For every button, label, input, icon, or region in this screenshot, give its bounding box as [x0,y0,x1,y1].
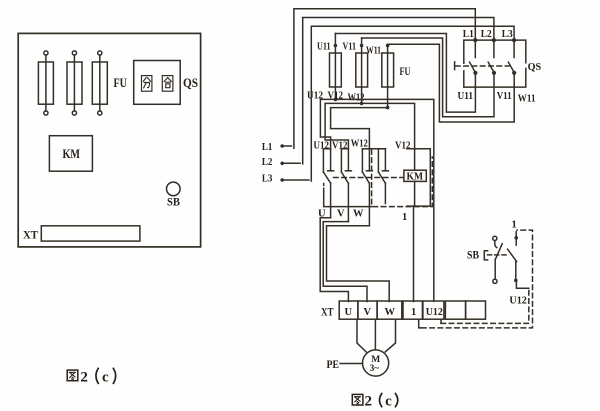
svg-text:c: c [102,369,109,385]
fuse FU pole 2 (left panel) [67,51,82,115]
wire QS pole1 to fuse U11 [335,34,475,113]
svg-text:FU: FU [400,66,411,78]
button SB cap bracket [484,251,487,260]
motor lead V [374,319,376,350]
dashed wire aux contact bottom [373,157,432,207]
terminal strip XT (right) [339,301,485,319]
svg-text:V12: V12 [332,140,348,151]
QS linkage handle tick [454,62,456,70]
node L1 on QS bus [473,38,477,42]
terminal L3 (incoming) [262,172,309,184]
svg-text:L1: L1 [463,29,474,40]
wire contact3 to XT terminal W [327,226,390,302]
svg-text:QS: QS [183,76,198,90]
wire QS pole2 to fuse V11 [362,38,494,117]
terminal L2 (incoming) [262,156,300,168]
KM main contact 3 [362,149,372,226]
svg-text:1: 1 [402,212,407,223]
button SB circle (left panel) [167,182,181,196]
QS pole 1 blade [470,40,478,75]
contactor KM box (left panel) [49,136,92,172]
svg-text:PE: PE [327,359,340,371]
wire QS pole3 to fuse W11 [388,44,515,122]
button SB contact (aux with circles) [493,236,503,283]
wire L2 to QS [303,18,494,164]
svg-text:W12: W12 [351,139,368,150]
fuse FU pole 1 (left panel) [38,51,53,115]
svg-text:W11: W11 [518,94,536,105]
wire node U12 tap along contacts [324,184,372,207]
svg-text:W: W [353,209,364,220]
KM coil bypass loop [407,149,430,206]
button SB contact (main) [508,232,518,282]
motor M circle [363,350,389,376]
wire contact2 to XT terminal V [323,222,367,302]
svg-text:U11: U11 [317,42,331,53]
svg-text:c: c [385,393,392,409]
svg-text:W12: W12 [348,93,365,104]
QS button 分 [142,76,152,92]
QS pole 3 blade [508,40,516,75]
svg-text:1: 1 [512,220,517,231]
KM main contact 2 [341,149,351,222]
svg-text:3~: 3~ [370,363,380,373]
QS pole 2 blade [488,40,496,75]
motor lead W [385,319,395,352]
svg-text:V12: V12 [395,140,411,151]
svg-text:XT: XT [23,230,38,242]
wire fuse U12 to contactor contact 1 [320,99,335,148]
svg-text:2: 2 [80,369,88,385]
wire L3 to QS [311,26,514,181]
svg-text:XT: XT [321,306,334,318]
wire fuse W12 to contactor contact 3 [331,108,388,149]
svg-text:U12: U12 [314,140,330,151]
svg-text:QS: QS [528,61,542,73]
motor lead U [357,319,366,352]
dashed external wire XT-U12 to SB [440,319,442,323]
svg-text:V11: V11 [343,42,357,53]
wire PE [340,363,363,365]
svg-text:L3: L3 [262,172,273,184]
svg-text:U12: U12 [509,296,527,307]
svg-text:V: V [337,209,345,220]
fuse FU pole 3 (left panel) [92,51,107,115]
KM auxiliary contact [378,149,388,204]
fuse FU pole U (right) [330,34,342,102]
svg-text:2: 2 [365,393,373,409]
switch QS box (left panel) [134,61,181,105]
svg-text:1: 1 [411,307,416,318]
svg-text:V: V [364,307,372,318]
KM contacts linkage dashed [334,177,403,179]
svg-text:L2: L2 [481,29,492,40]
svg-text:SB: SB [467,250,479,262]
svg-text:U11: U11 [458,91,474,102]
svg-text:U: U [345,307,353,318]
QS button 合 [162,76,173,92]
terminal L1 (incoming) [262,141,292,153]
wire fuse U12 to XT terminal U12 [335,99,433,301]
svg-text:L3: L3 [502,29,513,40]
caption right 图2（c） [352,393,397,409]
wire aux contact top loop [371,148,386,150]
svg-text:W: W [385,307,396,318]
wire contact1 to XT terminal U [320,218,348,302]
svg-text:L2: L2 [262,156,273,168]
dashed external wire XT-1 to SB [419,319,422,328]
svg-text:KM: KM [63,147,81,161]
wire L1 to QS [294,9,475,149]
node L3 on QS bus [512,38,516,42]
fuse FU pole V (right) [356,38,368,105]
panel enclosure box [18,33,200,247]
caption left 图2（c） [67,368,115,385]
svg-text:L1: L1 [262,141,273,153]
svg-text:FU: FU [114,76,128,90]
svg-text:U12: U12 [426,307,443,318]
wire fuse V12 to KM coil [362,103,415,170]
KM coil box [404,170,426,181]
wire fuse V12 to contactor contact 2 [325,103,362,148]
QS linkage dashed line [456,65,510,67]
disconnect switch QS frame [464,40,526,87]
wire KM coil to node 1 [414,181,415,301]
svg-text:V11: V11 [497,91,512,102]
terminal strip XT bar (left panel) [41,226,140,241]
SB linkage dashed [488,254,508,256]
svg-text:SB: SB [167,197,180,209]
node L2 on QS bus [492,38,496,42]
KM main contact 1 [323,149,333,218]
fuse FU pole W (right) [382,44,394,110]
